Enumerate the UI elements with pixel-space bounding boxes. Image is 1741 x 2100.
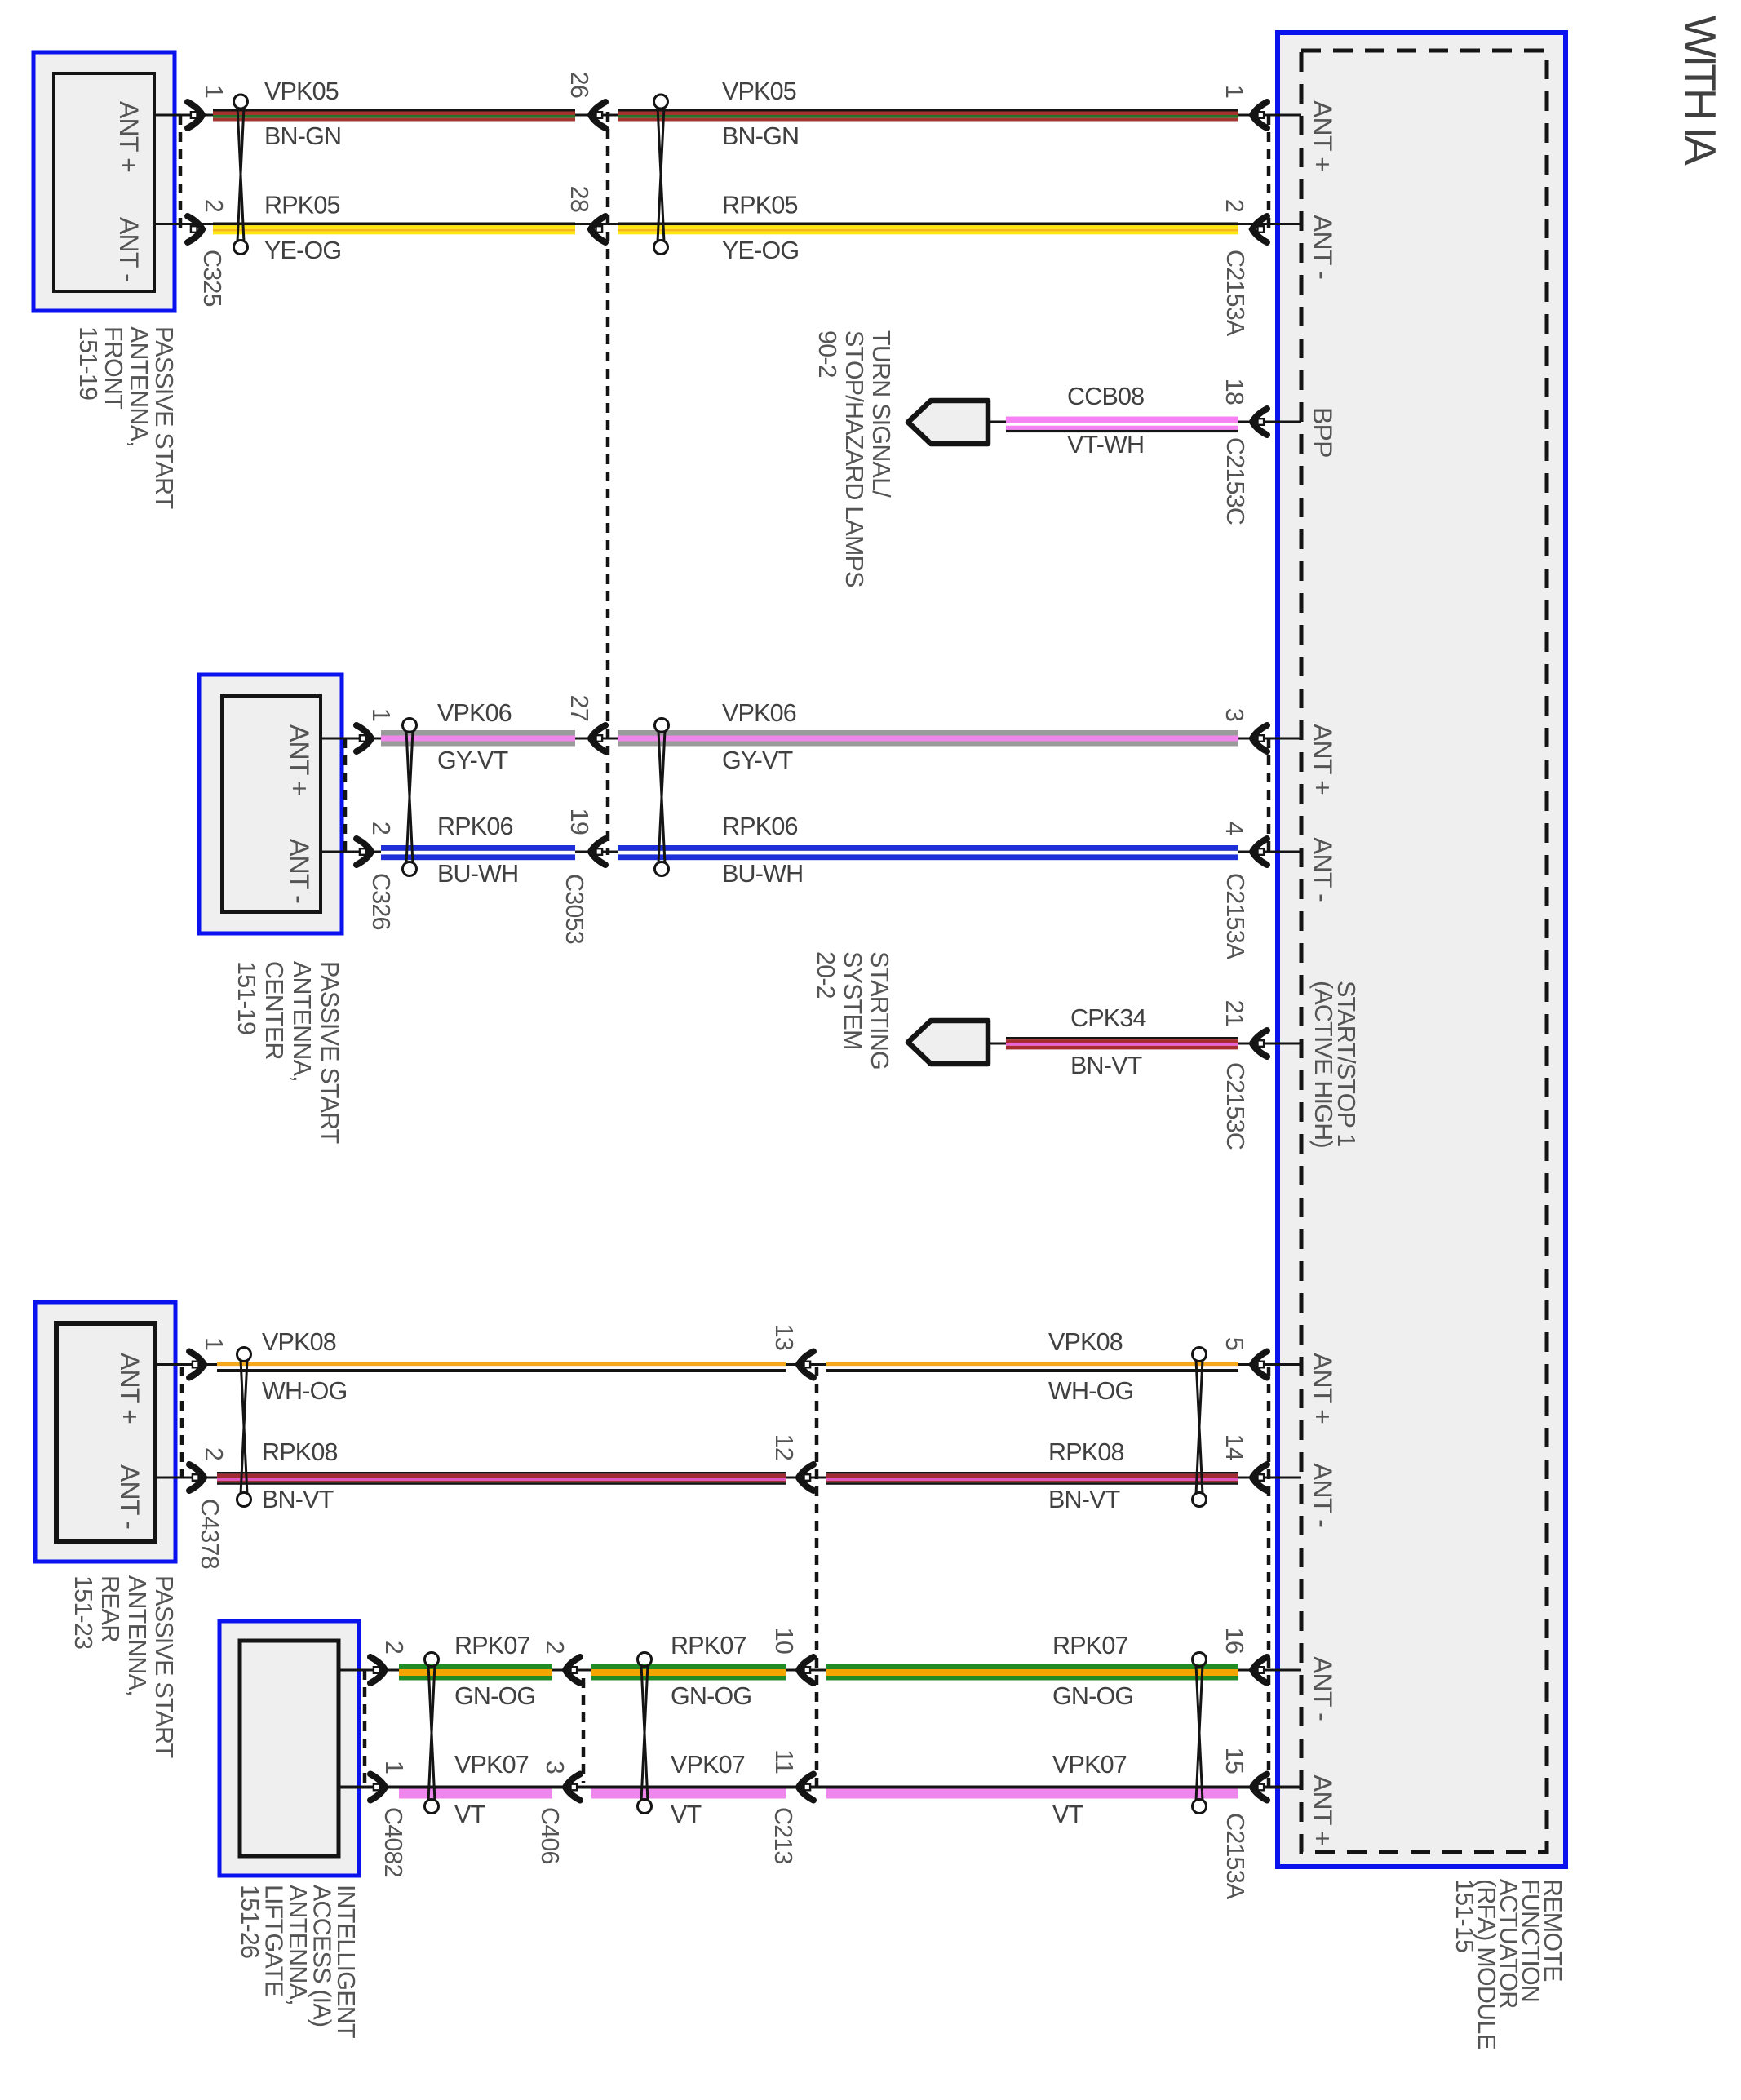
svg-text:ANT +: ANT + <box>1308 1353 1337 1424</box>
svg-text:VT: VT <box>1052 1801 1083 1828</box>
svg-text:4: 4 <box>1220 822 1248 835</box>
svg-text:GN-OG: GN-OG <box>454 1682 535 1710</box>
svg-text:GN-OG: GN-OG <box>671 1682 751 1710</box>
svg-text:13: 13 <box>770 1324 798 1350</box>
svg-text:ANT -: ANT - <box>1308 837 1337 902</box>
svg-text:C326: C326 <box>367 873 395 930</box>
svg-text:RPK08: RPK08 <box>262 1438 338 1466</box>
svg-text:12: 12 <box>770 1434 798 1460</box>
svg-text:YE-OG: YE-OG <box>722 237 799 264</box>
svg-text:1: 1 <box>200 1337 228 1350</box>
svg-text:2: 2 <box>380 1641 408 1654</box>
svg-text:ANT -: ANT - <box>285 839 314 903</box>
svg-text:WH-OG: WH-OG <box>262 1377 347 1405</box>
svg-text:WH-OG: WH-OG <box>1048 1377 1133 1405</box>
svg-text:C3053: C3053 <box>560 874 588 944</box>
svg-text:VT-WH: VT-WH <box>1067 431 1144 459</box>
svg-text:VPK08: VPK08 <box>1048 1328 1123 1356</box>
svg-text:27: 27 <box>565 695 593 721</box>
svg-text:C4378: C4378 <box>196 1499 224 1569</box>
svg-text:18: 18 <box>1220 379 1248 405</box>
svg-text:BN-GN: BN-GN <box>264 122 341 150</box>
svg-text:RPK08: RPK08 <box>1048 1438 1124 1466</box>
svg-text:C2153A: C2153A <box>1221 873 1249 960</box>
svg-text:ANT -: ANT - <box>114 217 144 281</box>
svg-text:11: 11 <box>770 1749 798 1774</box>
svg-text:BPP: BPP <box>1308 407 1337 458</box>
svg-text:VPK06: VPK06 <box>437 699 512 727</box>
svg-text:3: 3 <box>541 1761 569 1774</box>
svg-text:26: 26 <box>565 72 593 98</box>
svg-text:10: 10 <box>770 1628 798 1654</box>
svg-text:GY-VT: GY-VT <box>437 747 508 774</box>
svg-text:BN-GN: BN-GN <box>722 122 799 150</box>
svg-text:3: 3 <box>1220 708 1248 721</box>
svg-text:5: 5 <box>1220 1337 1248 1350</box>
svg-text:ANT +: ANT + <box>1308 1774 1337 1845</box>
svg-text:19: 19 <box>565 809 593 835</box>
svg-text:RPK05: RPK05 <box>264 192 340 219</box>
svg-text:START/STOP 1(ACTIVE HIGH): START/STOP 1(ACTIVE HIGH) <box>1309 981 1360 1148</box>
svg-text:RPK06: RPK06 <box>437 813 513 840</box>
svg-text:VPK08: VPK08 <box>262 1328 336 1356</box>
svg-text:BN-VT: BN-VT <box>1070 1052 1142 1079</box>
svg-text:ANT +: ANT + <box>115 1353 144 1424</box>
svg-text:VPK05: VPK05 <box>722 78 796 105</box>
svg-text:VT: VT <box>671 1801 702 1828</box>
svg-text:RPK06: RPK06 <box>722 813 798 840</box>
svg-text:1: 1 <box>380 1761 408 1774</box>
svg-text:14: 14 <box>1220 1434 1248 1461</box>
svg-text:21: 21 <box>1220 1000 1248 1026</box>
svg-text:C325: C325 <box>198 250 226 307</box>
svg-text:C2153C: C2153C <box>1221 1062 1249 1150</box>
svg-text:ANT +: ANT + <box>114 101 144 172</box>
svg-text:RPK05: RPK05 <box>722 192 798 219</box>
svg-text:VPK07: VPK07 <box>454 1751 529 1779</box>
svg-text:CPK34: CPK34 <box>1070 1004 1146 1032</box>
svg-text:ANT -: ANT - <box>1308 1463 1337 1527</box>
svg-text:2: 2 <box>200 199 228 212</box>
svg-text:ANT +: ANT + <box>285 724 314 795</box>
svg-text:C4082: C4082 <box>379 1807 407 1877</box>
svg-text:2: 2 <box>200 1447 228 1460</box>
svg-text:15: 15 <box>1220 1748 1248 1774</box>
svg-text:VPK06: VPK06 <box>722 699 796 727</box>
svg-text:ANT -: ANT - <box>1308 215 1337 279</box>
svg-text:C2153A: C2153A <box>1221 250 1249 337</box>
svg-text:2: 2 <box>541 1641 569 1654</box>
svg-text:1: 1 <box>200 85 228 98</box>
svg-text:28: 28 <box>565 186 593 212</box>
svg-text:WITH IA: WITH IA <box>1675 16 1725 166</box>
svg-text:BN-VT: BN-VT <box>262 1486 334 1513</box>
svg-text:ANT +: ANT + <box>1308 724 1337 795</box>
svg-text:GN-OG: GN-OG <box>1052 1682 1133 1710</box>
svg-text:2: 2 <box>1220 199 1248 212</box>
svg-text:1: 1 <box>367 708 395 721</box>
svg-text:C213: C213 <box>769 1807 797 1864</box>
svg-text:VPK07: VPK07 <box>671 1751 745 1779</box>
svg-text:VPK07: VPK07 <box>1052 1751 1127 1779</box>
svg-text:RPK07: RPK07 <box>671 1632 746 1659</box>
svg-text:16: 16 <box>1220 1628 1248 1654</box>
svg-text:YE-OG: YE-OG <box>264 237 341 264</box>
svg-text:1: 1 <box>1220 85 1248 98</box>
svg-text:ANT +: ANT + <box>1308 100 1337 171</box>
svg-text:CCB08: CCB08 <box>1067 383 1144 410</box>
svg-text:VT: VT <box>454 1801 485 1828</box>
svg-text:ANT -: ANT - <box>115 1464 144 1529</box>
svg-text:BU-WH: BU-WH <box>437 860 518 888</box>
svg-text:BU-WH: BU-WH <box>722 860 803 888</box>
svg-text:2: 2 <box>367 822 395 835</box>
svg-text:GY-VT: GY-VT <box>722 747 793 774</box>
svg-text:VPK05: VPK05 <box>264 78 339 105</box>
svg-text:BN-VT: BN-VT <box>1048 1486 1120 1513</box>
svg-text:RPK07: RPK07 <box>454 1632 530 1659</box>
svg-text:ANT -: ANT - <box>1308 1656 1337 1721</box>
svg-text:C2153C: C2153C <box>1221 437 1249 525</box>
svg-text:C2153A: C2153A <box>1221 1813 1249 1900</box>
svg-text:C406: C406 <box>536 1807 564 1864</box>
svg-text:RPK07: RPK07 <box>1052 1632 1128 1659</box>
